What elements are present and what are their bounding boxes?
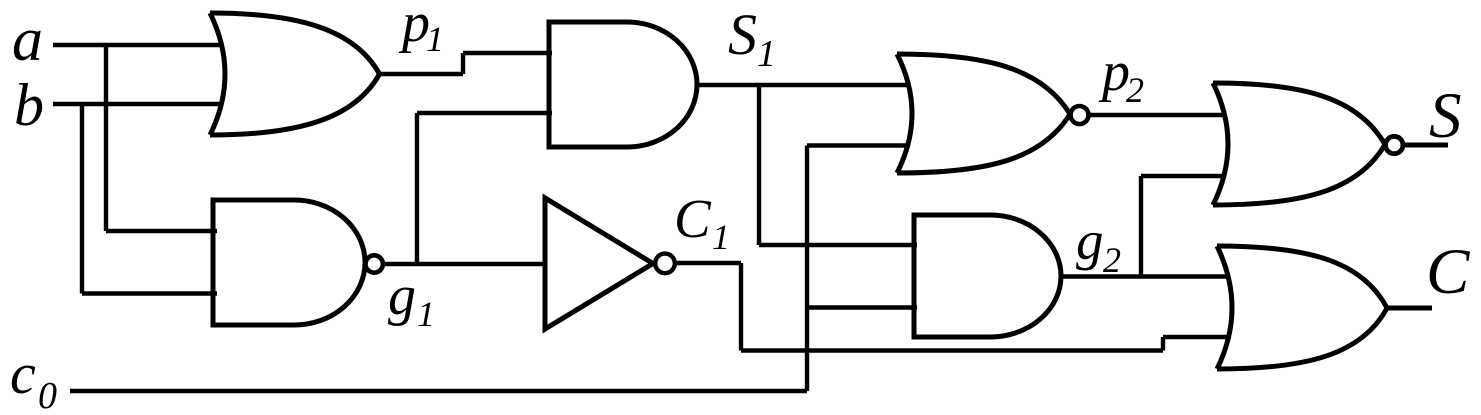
node g2 label [1076, 210, 1121, 280]
wire g2 riser to NOR S lower input [1141, 174, 1226, 178]
NOR gate U5 (p2) [897, 54, 1070, 173]
svg-text:0: 0 [38, 375, 57, 415]
NAND gate U2 (g1 = (ab)') [213, 200, 365, 325]
wire C output [1387, 306, 1432, 311]
AND gate U3 (S1) [549, 22, 697, 147]
node p1 label [398, 0, 444, 59]
wire a branch vertical [104, 45, 108, 231]
node g1 label [388, 265, 435, 334]
wire C1 jog up vertical [1161, 337, 1165, 351]
node p2 label [1098, 41, 1144, 110]
wire S1 drop to AND g2 upper input [759, 243, 917, 247]
bubble of NAND g1 [366, 255, 383, 272]
wire c0 branch to AND g2 lower input [807, 305, 917, 309]
wire a branch to NAND g1 upper input [106, 229, 217, 233]
wire C1 long horizontal run [741, 348, 1163, 352]
bubble of NOR S [1386, 136, 1403, 153]
svg-text:2: 2 [1126, 70, 1144, 110]
svg-text:g: g [1076, 210, 1104, 271]
svg-text:a: a [12, 6, 43, 74]
wire g1 riser vertical [415, 113, 419, 264]
bubble of NOR p2 [1071, 106, 1089, 124]
wire p1 to AND S1 upper input [463, 51, 552, 55]
svg-text:S: S [728, 2, 757, 67]
inverter U4 (C1 = g1') [545, 198, 653, 329]
wire g2 output to OR C upper input [1061, 274, 1229, 278]
wire b branch vertical [80, 104, 84, 294]
wire p1 jog vertical [461, 53, 465, 74]
wire g2 riser vertical [1139, 176, 1143, 277]
wire b input [53, 102, 223, 106]
OR gate U1 (p1 = a+b) [210, 13, 380, 135]
node C1 label [674, 188, 730, 257]
wire g1 output to inverter [383, 262, 547, 266]
svg-text:C: C [674, 188, 712, 249]
svg-text:1: 1 [757, 33, 776, 75]
wire g1 riser to AND S1 lower input [417, 111, 552, 115]
bubble of inverter C1 [655, 254, 675, 274]
svg-text:1: 1 [712, 217, 730, 257]
wire C1 to OR C lower input [1163, 335, 1229, 339]
svg-text:1: 1 [417, 294, 435, 334]
wire S1 output to NOR p2 upper input [697, 83, 910, 87]
wire b branch to NAND g1 lower input [82, 291, 217, 295]
node S1 label [728, 2, 776, 75]
wire p1 output [379, 72, 463, 76]
wire c0 input long horizontal [70, 389, 807, 393]
svg-text:c: c [10, 341, 36, 406]
OR gate U8 (C output) [1217, 246, 1387, 369]
svg-text:g: g [388, 265, 416, 327]
svg-text:b: b [14, 72, 44, 138]
NOR gate U7 (S output) [1213, 83, 1385, 205]
wire a input [53, 43, 223, 47]
wire C1 output [675, 261, 741, 265]
wire S1 drop vertical [757, 85, 761, 245]
AND gate U6 (g2) [914, 215, 1061, 337]
svg-text:S: S [1429, 80, 1462, 152]
wire S output [1403, 143, 1448, 148]
svg-text:2: 2 [1103, 240, 1121, 280]
wire p2 output to NOR S upper input [1089, 113, 1226, 117]
svg-text:C: C [1426, 236, 1470, 308]
wire C1 drop vertical [739, 263, 743, 351]
wire c0 to NOR p2 lower input [807, 143, 910, 147]
svg-text:1: 1 [426, 19, 444, 59]
wire c0 riser vertical [805, 146, 809, 392]
node c0 label [10, 341, 57, 415]
